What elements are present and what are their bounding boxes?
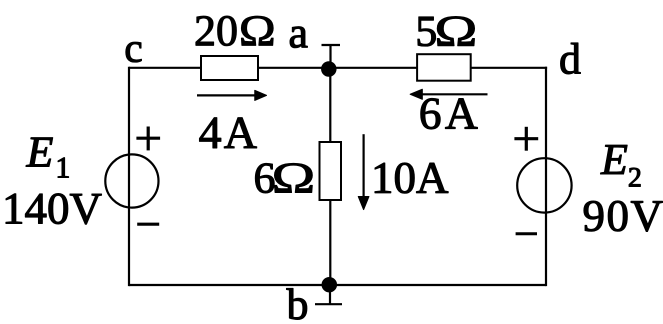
voltage source E2 circle <box>517 158 571 212</box>
wire top-right (5ohm resistor to d) <box>470 67 547 69</box>
label 20ohm value <box>196 16 273 46</box>
minus sign of E2 <box>516 232 537 235</box>
resistor 20ohm (box between c and a) <box>201 56 258 80</box>
current arrow 4A (pointing right) <box>197 90 267 100</box>
wire bottom (left corner through node b to right corner) <box>129 284 546 286</box>
label node a <box>290 27 307 48</box>
plus sign of E1 <box>136 127 160 151</box>
voltage source E1 circle <box>105 154 158 207</box>
label 5ohm value <box>418 17 475 47</box>
current arrow 6A (pointing left) <box>410 89 487 99</box>
label node b <box>287 288 307 319</box>
label 90V value <box>584 201 663 232</box>
wire left branch (c down through E1 to bottom) <box>128 67 130 286</box>
resistor 6ohm (vertical box between a and b) <box>320 142 342 200</box>
wire middle upper (node a to 6ohm resistor) <box>329 68 331 144</box>
label node c <box>126 42 142 62</box>
label 4A <box>200 118 257 148</box>
current arrow 10A (pointing down) <box>358 134 369 209</box>
wire middle lower (6ohm resistor to node b) <box>329 199 331 285</box>
label 10A <box>375 163 448 193</box>
node b junction dot <box>322 278 336 292</box>
wire right branch (d down through E2 to bottom) <box>545 67 547 286</box>
label E1 <box>26 138 69 178</box>
minus sign of E1 <box>137 223 159 226</box>
plus sign of E2 <box>514 127 538 151</box>
wire top-left (c to 20ohm resistor) <box>129 67 202 69</box>
terminal stub at node b <box>315 291 342 304</box>
node a junction dot <box>322 62 336 76</box>
resistor 5ohm (box between a and d) <box>417 54 471 80</box>
label 6ohm value <box>255 163 312 193</box>
label node d <box>561 43 581 74</box>
wire top-middle (20ohm resistor to node a to 5ohm resistor) <box>258 67 418 69</box>
terminal stub at node a <box>322 45 341 62</box>
label E2 <box>600 145 640 186</box>
label 140V value <box>6 194 102 225</box>
label 6A <box>421 98 478 129</box>
